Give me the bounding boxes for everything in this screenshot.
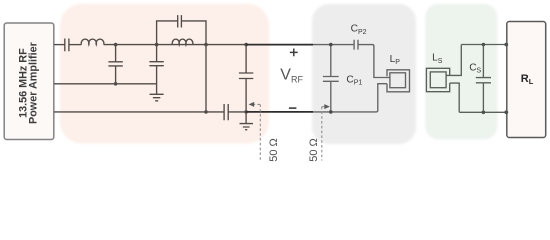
wire: L_S bottom lead [450,83,460,112]
wire: L_S top lead to top rail [446,45,461,76]
capacitor C6 (shunt at node J4) [239,45,253,112]
inductor L1 [81,39,104,44]
wire: green region bottom rail [459,111,507,113]
capacitor C_S [476,45,491,113]
node J4 [244,43,248,47]
node R_L bottom terminal [504,110,508,114]
wire: parallel branch right riser [181,21,206,45]
region: primary resonator (gray) [312,4,416,144]
wire: top rail from amplifier to C1 [54,44,65,46]
capacitor C5 (series, bottom rail) [224,104,228,120]
junction dots: pink network [114,43,248,114]
ground (below C3) [150,94,164,101]
capacitor C4 (parallel with L2) [178,15,182,27]
junction dots: green region [482,43,509,115]
capacitor C2 (shunt at node J1) [108,45,122,84]
node R_L top terminal [504,43,508,47]
wire: C1 to L1 [69,44,82,46]
wire: bottom rail from amplifier to C5 [54,111,224,113]
node C_P1 top [329,43,333,47]
svg-text:50 Ω: 50 Ω [308,138,320,162]
impedance marker: 50 ohm looking left into J4 [253,104,261,160]
node J4 bottom [244,110,248,114]
node J3 [204,43,208,47]
wire: gray region bottom rail [313,84,387,112]
coil L_S (planar loop, outer turn) [426,68,449,91]
capacitor C_P1 (shunt) [323,45,339,112]
label: - terminal [289,107,297,109]
impedance marker: 50 ohm looking right into C_P1 [322,107,326,161]
wire: green region top rail [461,44,507,46]
node J1 [114,43,118,47]
svg-text:VRF: VRF [280,67,303,85]
wire: bottom rail C5 to node J4 [228,111,246,113]
wire: V_RF bottom feed (pink to gray region) [246,111,313,113]
svg-text:50 Ω: 50 Ω [268,138,280,162]
coil L_P (inner turn) [390,73,406,88]
capacitor C3 (shunt at node J2, to ground) [149,45,163,95]
svg-text:Power Amplifier: Power Amplifier [28,41,40,124]
node J1 bottom [114,82,118,86]
node C_S top [482,43,486,47]
wire: C_P2 to L_P top lead [358,45,390,78]
wire: top rail L1 to node J4 [104,44,246,46]
wire: node J3 down to bottom rail [205,45,207,112]
capacitor C_P2 [354,40,358,50]
coil L_P (planar loop, outer turn) [387,70,410,92]
ground (below bottom rail at J4) [240,112,254,130]
region: secondary resonator (green) [425,4,497,139]
coil L_S (inner turn) [430,72,446,88]
node J2 [155,43,159,47]
wire: middle return rail [54,83,157,85]
capacitor C1 (series, input) [65,39,69,52]
wire: V_RF top feed (pink to gray region) [246,44,313,46]
wire: parallel branch left riser [157,21,178,45]
node C_P1 bottom [329,110,333,114]
wire: gray region top rail [313,44,354,46]
region: matching network (pink) [60,4,269,144]
label: + terminal [290,49,298,57]
node C_S bottom [482,111,486,115]
node J3 bottom [204,110,208,114]
RF power amplifier box [4,23,54,140]
load box R_L [507,22,546,138]
junction dots: gray region [329,43,333,114]
inductor L2 [172,39,193,44]
